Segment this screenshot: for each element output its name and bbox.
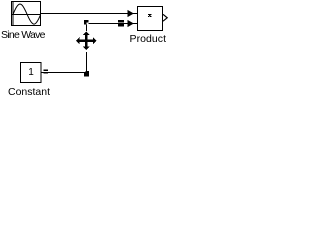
line handle square near Product input 2 bbox=[118, 20, 124, 27]
vertex handle square at lower corner bbox=[84, 71, 89, 77]
wire: vertical segment upper part (corner down to cursor) bbox=[86, 25, 88, 32]
move cursor (4-way arrow) bbox=[76, 32, 97, 51]
sine icon horizontal axis bbox=[12, 14, 41, 16]
Sine Wave block bbox=[12, 2, 41, 26]
Constant block bbox=[21, 63, 42, 83]
vertex handle square at upper corner bbox=[84, 20, 89, 25]
svg-text:Sine Wave: Sine Wave bbox=[1, 29, 46, 41]
wire: Constant output horizontal segment bbox=[41, 72, 85, 74]
svg-text:Constant: Constant bbox=[8, 86, 50, 97]
arrowhead into Product input 1 bbox=[128, 10, 134, 17]
Product block bbox=[138, 7, 163, 31]
wire: Sine Wave output to Product input 1 bbox=[41, 13, 138, 15]
svg-text:Product: Product bbox=[130, 33, 167, 45]
arrowhead into Product input 2 bbox=[128, 20, 134, 27]
canvas background bbox=[0, 0, 173, 97]
sine icon vertical axis bbox=[12, 2, 14, 25]
sine icon curve bbox=[13, 4, 41, 24]
svg-text:1: 1 bbox=[28, 67, 34, 78]
Product block * symbol bbox=[148, 14, 151, 17]
Product output port bbox=[163, 14, 167, 21]
wire: vertical segment lower part (cursor down to bottom corner) bbox=[86, 52, 88, 72]
line handle square near Constant output bbox=[44, 69, 49, 73]
wire: branch horizontal to Product input 2 bbox=[89, 23, 138, 25]
